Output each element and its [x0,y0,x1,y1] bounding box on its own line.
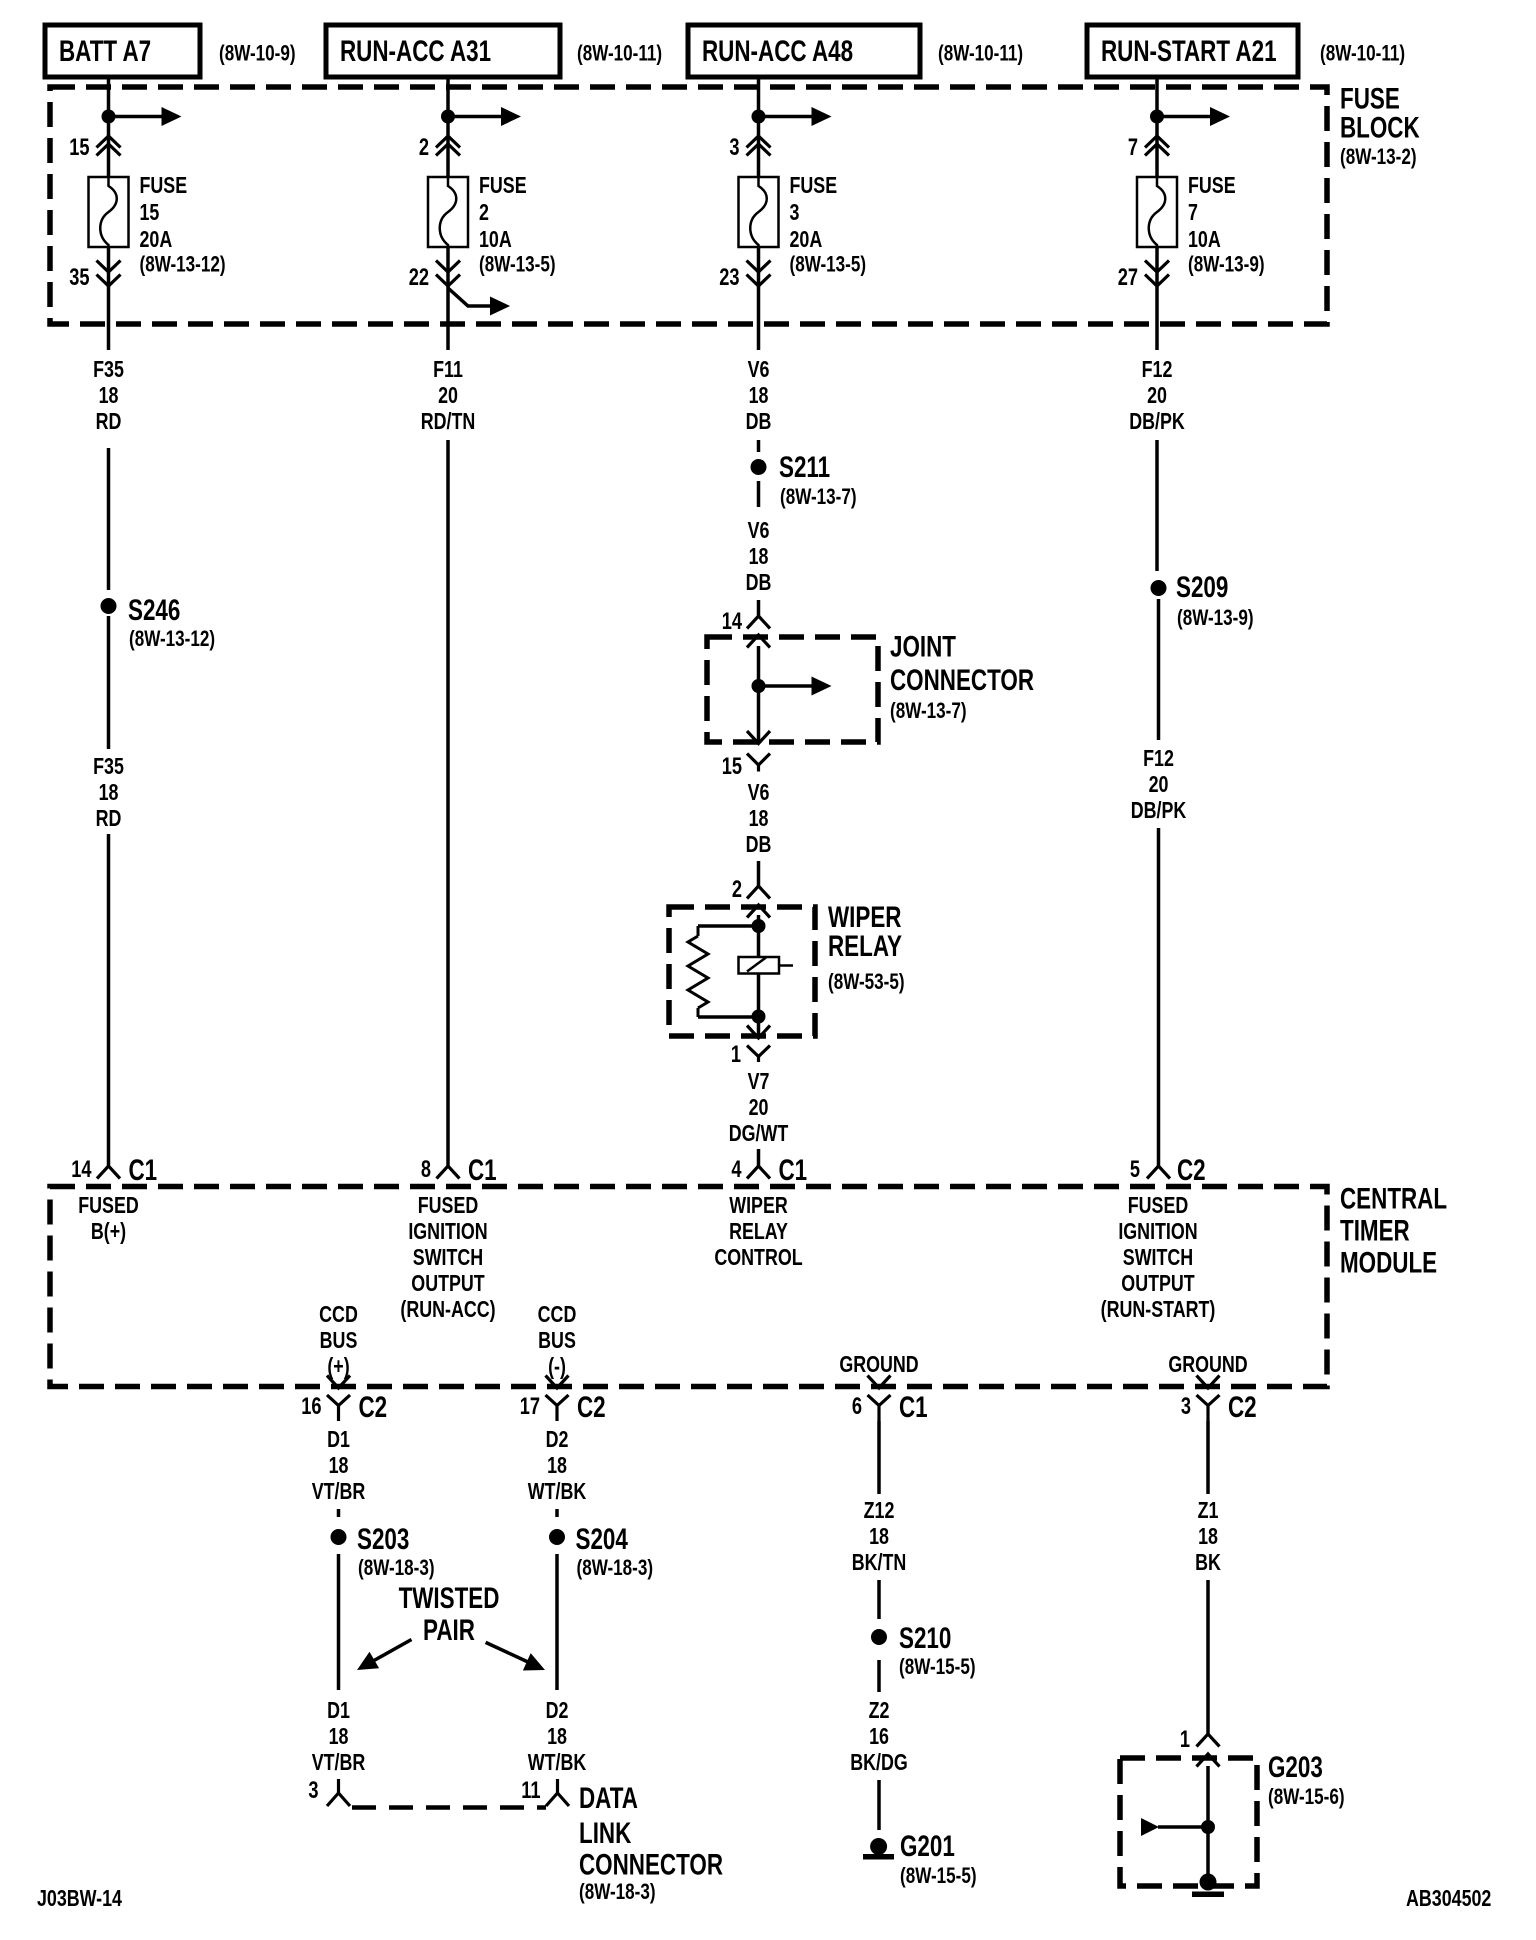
svg-text:CONNECTOR: CONNECTOR [890,663,1034,697]
connector fork at DLC pin 11 [546,1779,569,1806]
CTM connector C1 label at pin 4 [779,1153,808,1187]
pin 11 label at data link connector [521,1777,540,1804]
fuse block dashed boundary [50,87,1327,324]
CTM pin 17 label [520,1393,540,1420]
CTM connector C2 label at pin 17 [577,1390,606,1424]
splice S210 name label [899,1621,976,1680]
connector fork at CTM pin 5 [1147,1166,1170,1179]
svg-text:S211: S211 [779,450,830,484]
fuse 3 value label [790,173,867,277]
reference label (8W-10-11) for RUN-ACC A48 [938,41,1023,66]
CTM connector C2 label at pin 3 [1228,1390,1257,1424]
branch arrow (circuit continues) at x=448 [448,107,521,126]
svg-text:18: 18 [749,383,769,409]
svg-text:S210: S210 [899,1621,951,1655]
wire V7 to CTM pin 4 [757,1149,761,1166]
svg-text:10A: 10A [479,227,512,253]
branch arrow (circuit continues) at x=1157 [1157,107,1230,126]
svg-text:RUN-ACC A31: RUN-ACC A31 [340,34,491,68]
central timer module dashed boundary [50,1187,1327,1387]
wire label V7 20 DG/WT [729,1069,789,1147]
wire D2 below splice S204 [555,1554,559,1690]
splice S204 [549,1529,565,1545]
inline connector chevrons (pin 35) [97,261,121,287]
splice S209 [1151,580,1167,596]
inline connector chevrons (pin 27) [1145,261,1169,287]
svg-text:(8W-13-9): (8W-13-9) [1177,606,1254,631]
CTM exit fork at pin 17 [546,1395,569,1421]
svg-text:27: 27 [1118,264,1138,291]
connector head RUN-ACC A48 [688,25,920,77]
wire from fuse 3 exiting fuse block [757,247,761,350]
svg-text:(8W-13-9): (8W-13-9) [1188,252,1265,277]
svg-text:MODULE: MODULE [1340,1245,1437,1279]
wire to resistor branch (top) [698,924,759,928]
svg-text:TIMER: TIMER [1340,1213,1410,1247]
svg-text:(8W-10-9): (8W-10-9) [219,41,296,66]
svg-text:RUN-START A21: RUN-START A21 [1101,34,1277,68]
svg-text:18: 18 [99,383,119,409]
junction node inside G203 [1201,1820,1215,1834]
svg-text:C1: C1 [899,1390,928,1424]
svg-text:1: 1 [731,1041,741,1068]
svg-text:(8W-15-5): (8W-15-5) [899,1655,976,1680]
inline connector chevrons (pin 23) [747,261,771,287]
svg-text:C2: C2 [577,1390,606,1424]
svg-text:23: 23 [719,264,739,291]
svg-text:6: 6 [852,1393,862,1420]
reference label (8W-10-11) for RUN-START A21 [1320,41,1405,66]
junction node wiper relay top [752,919,766,933]
svg-text:C2: C2 [1177,1153,1206,1187]
svg-text:(8W-10-11): (8W-10-11) [938,41,1023,66]
splice S246 [101,598,117,614]
splice S210 [871,1629,887,1645]
ground G201 symbol [863,1838,894,1860]
svg-text:V6: V6 [748,780,770,806]
svg-text:F12: F12 [1143,746,1174,772]
wire label F12 20 DB/PK (upper) at x=1157 [1129,357,1185,435]
fuse 7 body [1137,177,1177,247]
svg-text:SWITCH: SWITCH [1123,1245,1193,1271]
svg-text:F11: F11 [433,357,463,383]
wire V6 into joint connector [757,600,761,616]
splice S204 name label [576,1522,654,1581]
svg-text:FUSE: FUSE [1188,173,1236,199]
wire F35 to CTM pin 14 [107,834,111,1166]
svg-text:15: 15 [140,200,160,226]
fuse 2 body [428,177,468,247]
svg-text:OUTPUT: OUTPUT [411,1271,485,1297]
connector chevron at wiper relay pin 1 [747,1026,770,1039]
svg-text:20: 20 [749,1095,769,1121]
drawing code J03BW-14 [37,1886,122,1912]
svg-text:BK/DG: BK/DG [850,1750,908,1776]
svg-text:BATT A7: BATT A7 [59,34,151,68]
connector head RUN-ACC A31 [326,25,560,77]
fuse 3 body [739,177,779,247]
wire inside joint connector (lower) [757,686,761,742]
wire from head into fuse block col x=448 [446,77,450,177]
wire inside wiper relay (top) [757,915,761,926]
svg-text:CONNECTOR: CONNECTOR [579,1847,723,1881]
inline connector chevrons (pin 22) [436,261,460,287]
splice S246 name label [128,593,215,652]
svg-text:(+): (+) [327,1354,349,1380]
wire label V6 18 DB (above joint connector) [746,518,772,596]
svg-text:LINK: LINK [579,1816,631,1850]
twisted pair arrow (right) [486,1642,545,1670]
svg-text:3: 3 [1181,1393,1191,1420]
pin 23 label [719,264,739,291]
svg-text:3: 3 [790,200,800,226]
svg-text:(8W-10-11): (8W-10-11) [1320,41,1405,66]
svg-text:WIPER: WIPER [729,1193,788,1219]
svg-text:20: 20 [438,383,458,409]
CTM pin 3 label [1181,1393,1191,1420]
CTM function label FUSED IGNITION SWITCH OUTPUT (RUN-ACC) [400,1193,495,1323]
fuse 15 value label [140,173,226,277]
CTM exit fork at pin 6 [868,1395,891,1421]
svg-text:IGNITION: IGNITION [1118,1219,1197,1245]
svg-text:F35: F35 [93,357,124,383]
wire from resistor branch (bottom) [698,1015,759,1019]
svg-text:G203: G203 [1268,1750,1323,1784]
svg-text:1: 1 [1180,1726,1190,1753]
svg-text:(8W-13-12): (8W-13-12) [129,627,215,652]
junction node inside joint connector [752,679,766,693]
svg-text:2: 2 [732,876,742,903]
CTM function label WIPER RELAY CONTROL [714,1193,802,1271]
branch arrow inside joint connector [759,677,832,696]
ground G201 name label [900,1829,977,1889]
svg-text:22: 22 [409,264,429,291]
wire Z1 to ground G203 [1206,1580,1210,1734]
svg-text:18: 18 [1198,1524,1218,1550]
wire from head into fuse block col x=758.5 [757,77,761,177]
wire label F12 20 DB/PK (lower) [1131,746,1187,824]
CTM function label CCD BUS (+) [319,1302,358,1380]
svg-text:(8W-53-5): (8W-53-5) [828,970,905,995]
svg-text:C1: C1 [129,1153,158,1187]
pin 1 label at wiper relay [731,1041,741,1068]
ground G203 dashed boundary [1120,1758,1257,1886]
svg-text:4: 4 [731,1156,741,1183]
ground wire Z1 from CTM pin 3 [1206,1421,1210,1494]
svg-text:20: 20 [1147,383,1167,409]
joint connector name label [890,629,1034,723]
CTM function label GROUND (pin 6) [839,1352,918,1378]
wire stub above splice S203 [337,1509,341,1517]
central timer module name label [1340,1181,1447,1279]
CTM exit fork at pin 16 [327,1395,350,1421]
wire from head into fuse block col x=1157 [1155,77,1159,177]
inline connector chevrons (pin 2) [436,136,460,156]
wire label D2 18 WT/BK (upper) [528,1427,586,1505]
svg-text:RD: RD [96,409,122,435]
wire stub above splice S211 [757,440,761,452]
svg-text:IGNITION: IGNITION [408,1219,487,1245]
svg-text:16: 16 [869,1724,889,1750]
wire label F11 20 RD/TN (upper) at x=448 [421,357,476,435]
branch arrow (circuit continues) at x=108.5 [109,107,182,126]
svg-text:18: 18 [749,806,769,832]
svg-text:20A: 20A [140,227,173,253]
junction node wiper relay bottom [752,1010,766,1024]
svg-text:V7: V7 [748,1069,770,1095]
svg-text:18: 18 [749,544,769,570]
connector fork+chevron at G203 pin 1 [1197,1734,1220,1767]
CTM pin 4 label [731,1156,741,1183]
wire label Z12 18 BK/TN [852,1498,907,1576]
svg-text:5: 5 [1130,1156,1140,1183]
splice S203 name label [357,1522,435,1581]
svg-text:S209: S209 [1176,570,1228,604]
splice S203 [331,1529,347,1545]
svg-text:17: 17 [520,1393,540,1420]
svg-text:RD/TN: RD/TN [421,409,476,435]
ground wire Z12 from CTM pin 6 [877,1421,881,1494]
svg-text:V6: V6 [748,357,770,383]
svg-text:(8W-13-7): (8W-13-7) [890,699,967,724]
CTM exit chevron at pin 16 [327,1376,350,1389]
svg-text:D1: D1 [327,1427,350,1453]
wire F12 segment above S209 [1155,440,1159,571]
svg-text:SWITCH: SWITCH [413,1245,483,1271]
connector chevron at joint connector pin 15 [747,731,770,744]
svg-text:2: 2 [419,134,429,161]
wire inside G203 (lower) [1206,1827,1210,1874]
svg-text:VT/BR: VT/BR [312,1479,366,1505]
splice S211 [751,459,767,475]
inline connector chevrons (pin 15) [97,136,121,156]
pin 2 label at wiper relay [732,876,742,903]
CTM exit chevron at pin 17 [546,1376,569,1389]
CTM pin 16 label [301,1393,321,1420]
inline connector chevrons (pin 3) [747,136,771,156]
svg-text:VT/BR: VT/BR [312,1750,366,1776]
svg-text:3: 3 [308,1777,318,1804]
svg-text:18: 18 [99,780,119,806]
svg-text:WT/BK: WT/BK [528,1750,586,1776]
junction node on wire x=108.5 [102,110,116,124]
svg-text:(8W-10-11): (8W-10-11) [577,41,662,66]
pin 14 label at joint connector [722,608,742,635]
wire Z2 to ground G201 [877,1780,881,1830]
svg-text:V6: V6 [748,518,770,544]
svg-text:18: 18 [329,1724,349,1750]
svg-text:FUSED: FUSED [78,1193,139,1219]
svg-text:DB: DB [746,409,772,435]
svg-text:FUSE: FUSE [479,173,527,199]
wire inside G203 (upper) [1206,1766,1210,1827]
junction node on wire x=448 [441,110,455,124]
fuse 2 value label [479,173,556,277]
CTM pin 5 label [1130,1156,1140,1183]
branch arrow at pin 22 [448,288,510,316]
wiper relay name label [828,900,905,995]
svg-text:(8W-13-2): (8W-13-2) [1340,145,1417,170]
wire Z12 above splice S210 [877,1580,881,1619]
CTM pin 14 label [71,1156,91,1183]
wire label V6 18 DB (below joint connector) [746,780,772,858]
svg-text:FUSE: FUSE [790,173,838,199]
connector head RUN-START A21 [1087,25,1298,77]
wire label V6 18 DB (upper) at x=758.5 [746,357,772,435]
connector fork at CTM pin 8 [437,1166,460,1179]
relay coil wire (vertical) [757,926,761,1017]
svg-text:RELAY: RELAY [729,1219,788,1245]
wire F35 segment above S246 [107,448,111,590]
svg-text:18: 18 [547,1453,567,1479]
svg-text:(8W-13-5): (8W-13-5) [479,252,556,277]
svg-text:2: 2 [479,200,489,226]
svg-text:DG/WT: DG/WT [729,1121,789,1147]
svg-text:BK/TN: BK/TN [852,1550,907,1576]
CTM function label GROUND (pin 3) [1168,1352,1247,1378]
svg-text:FUSED: FUSED [418,1193,479,1219]
svg-text:(8W-18-3): (8W-18-3) [358,1556,435,1581]
wire label F35 18 RD (upper) at x=108.5 [93,357,124,435]
svg-text:DB: DB [746,832,772,858]
wire F35 segment below S246 [107,616,111,749]
svg-text:(8W-15-6): (8W-15-6) [1268,1785,1345,1810]
wire inside joint connector (upper) [757,646,761,686]
wire label Z2 16 BK/DG [850,1698,908,1776]
svg-text:Z1: Z1 [1198,1498,1219,1524]
svg-text:(8W-13-12): (8W-13-12) [140,252,226,277]
svg-text:C1: C1 [468,1153,497,1187]
wire from fuse 7 exiting fuse block [1155,247,1159,350]
connector fork at CTM pin 4 [747,1166,770,1179]
TWISTED PAIR label [399,1581,500,1647]
splice S209 name label [1176,570,1254,631]
svg-text:7: 7 [1188,200,1198,226]
svg-text:CONTROL: CONTROL [714,1245,802,1271]
wire F12 segment below S209 [1157,599,1161,740]
CTM pin 8 label [421,1156,431,1183]
CTM exit chevron at pin 6 [868,1376,891,1389]
connector fork at CTM pin 14 [97,1166,120,1179]
svg-text:16: 16 [301,1393,321,1420]
drawing code AB304502 [1406,1886,1491,1912]
wire V6 into wiper relay [757,861,761,886]
svg-text:C2: C2 [1228,1390,1257,1424]
wire F11 to CTM pin 8 [446,440,450,1166]
wire inside wiper relay (bottom) [757,1017,761,1036]
svg-text:S246: S246 [128,593,180,627]
CTM connector C2 label at pin 16 [359,1390,388,1424]
svg-text:D1: D1 [327,1698,350,1724]
svg-text:G201: G201 [900,1829,955,1863]
svg-text:14: 14 [71,1156,91,1183]
wire from head into fuse block col x=108.5 [107,77,111,177]
svg-text:(-): (-) [548,1354,566,1380]
svg-text:BLOCK: BLOCK [1340,110,1420,144]
ground symbol at G203 [1192,1874,1224,1898]
inline connector chevrons (pin 7) [1145,136,1169,156]
svg-text:RELAY: RELAY [828,929,902,963]
svg-text:35: 35 [69,264,89,291]
svg-text:15: 15 [69,134,89,161]
svg-text:RD: RD [96,806,122,832]
joint connector dashed boundary [707,637,878,742]
connector fork at joint connector pin 15 exit [747,754,770,772]
resistor inside wiper relay [688,926,708,1017]
svg-text:BUS: BUS [538,1328,576,1354]
svg-text:JOINT: JOINT [890,629,956,663]
pin 3 label at data link connector [308,1777,318,1804]
svg-text:TWISTED: TWISTED [399,1581,500,1615]
twisted pair arrow (left) [357,1640,412,1671]
connector fork+chevron at joint connector pin 14 [747,616,770,648]
fuse 15 body [89,177,129,247]
wire label F35 18 RD (lower) [93,754,124,832]
relay coil symbol [739,957,794,974]
wire F12 to CTM pin 5 [1157,828,1161,1166]
svg-text:PAIR: PAIR [423,1613,475,1647]
fuse block name label [1340,81,1420,169]
svg-text:D2: D2 [546,1698,569,1724]
reference label (8W-10-9) for BATT A7 [219,41,296,66]
wire label D2 18 WT/BK (lower) [528,1698,586,1776]
wire label D1 18 VT/BR (upper) [312,1427,366,1505]
svg-text:S204: S204 [576,1522,629,1556]
svg-text:FUSED: FUSED [1128,1193,1189,1219]
svg-text:18: 18 [547,1724,567,1750]
svg-text:FUSE: FUSE [140,173,188,199]
svg-text:F12: F12 [1142,357,1173,383]
svg-text:20: 20 [1149,772,1169,798]
svg-text:F35: F35 [93,754,124,780]
svg-text:D2: D2 [546,1427,569,1453]
svg-text:DB/PK: DB/PK [1129,409,1185,435]
svg-text:(8W-13-5): (8W-13-5) [790,252,867,277]
fuse 7 value label [1188,173,1265,277]
svg-text:(8W-13-7): (8W-13-7) [780,485,857,510]
data link connector dashed body [352,1805,546,1810]
svg-text:11: 11 [521,1777,540,1804]
wire label Z1 18 BK [1195,1498,1221,1576]
svg-text:DB: DB [746,570,772,596]
CTM exit chevron at pin 3 [1197,1376,1220,1389]
svg-text:CCD: CCD [538,1302,577,1328]
svg-text:RUN-ACC A48: RUN-ACC A48 [702,34,853,68]
svg-text:OUTPUT: OUTPUT [1121,1271,1195,1297]
svg-text:CENTRAL: CENTRAL [1340,1181,1447,1215]
svg-text:GROUND: GROUND [839,1352,918,1378]
pin 3 label [729,134,739,161]
wire label D1 18 VT/BR (lower) [312,1698,366,1776]
splice S211 name label [779,450,857,510]
svg-text:3: 3 [729,134,739,161]
CTM exit fork at pin 3 [1197,1395,1220,1421]
svg-text:J03BW-14: J03BW-14 [37,1886,122,1912]
junction node on wire x=758.5 [752,110,766,124]
svg-text:(8W-15-5): (8W-15-5) [900,1864,977,1889]
svg-text:(8W-18-3): (8W-18-3) [579,1880,656,1905]
pin 22 label [409,264,429,291]
svg-text:7: 7 [1128,134,1138,161]
pin 15 label [69,134,89,161]
svg-text:Z12: Z12 [864,1498,895,1524]
svg-text:Z2: Z2 [869,1698,890,1724]
CTM connector C2 label at pin 5 [1177,1153,1206,1187]
data link connector name label [579,1781,723,1905]
svg-text:CCD: CCD [319,1302,358,1328]
connector fork at wiper relay pin 1 exit [747,1046,770,1063]
pin 1 label at G203 [1180,1726,1190,1753]
